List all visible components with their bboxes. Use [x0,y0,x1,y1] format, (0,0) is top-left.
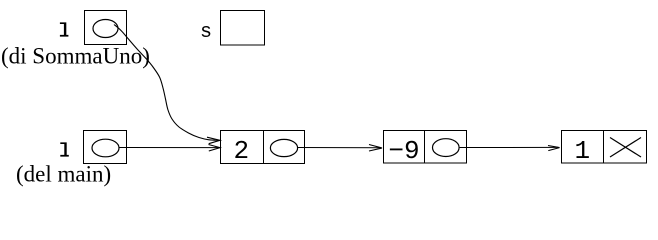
svg-text:2: 2 [234,136,250,166]
svg-text:(di SommaUno): (di SommaUno) [1,43,150,68]
pointer ellipse in box l (del main) [92,139,119,157]
label l (di SommaUno) [60,22,69,36]
label l (del main) [60,142,69,156]
pointer box l (del main) [84,131,127,164]
pointer box s (empty) [221,11,265,46]
node -9 divider [424,131,426,164]
null marker X stroke 1 [610,138,641,158]
svg-text:1: 1 [575,136,591,166]
pointer box l (di SommaUno) [85,11,127,45]
arrowhead into node 2 (from l di SommaUno) [207,137,220,144]
wire node -9 to node 1 [460,146,558,148]
null marker X stroke 2 [610,138,641,158]
node -9 pointer ellipse [433,139,460,157]
node 2 box [221,131,305,164]
arrowhead into node 2 (from l del main) [209,145,221,152]
node -9 box [384,131,467,164]
node 1 divider [603,131,605,164]
arrowhead into node 1 [548,146,560,151]
svg-text:s: s [200,21,212,44]
wire l(del main) to node 2 [119,147,219,149]
node 2 pointer ellipse [270,139,297,156]
svg-text:−9: −9 [388,136,419,166]
svg-text:(del main): (del main) [16,161,111,186]
node 1 box [562,131,647,164]
curved wire l(di SommaUno) to node 2 [114,25,220,141]
arrowhead into node -9 [369,145,382,152]
node 2 divider [263,131,265,164]
wire node 2 to node -9 [298,147,381,149]
pointer ellipse in box l (di SommaUno) [93,20,118,38]
